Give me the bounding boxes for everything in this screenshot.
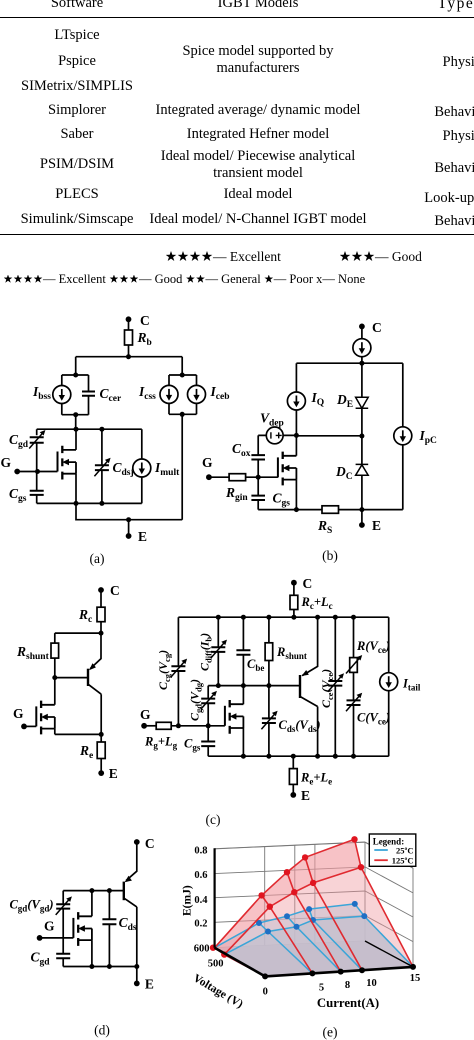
svg-text:Cce(Vce): Cce(Vce): [319, 669, 335, 708]
svg-text:G: G: [44, 919, 55, 934]
svg-text:G: G: [202, 455, 213, 470]
svg-text:Rgin: Rgin: [225, 485, 248, 503]
svg-text:Cdiff(Ib): Cdiff(Ib): [198, 633, 214, 671]
svg-text:Ibss: Ibss: [32, 384, 51, 402]
svg-text:Rc: Rc: [78, 607, 92, 625]
svg-text:Current(A): Current(A): [317, 996, 379, 1010]
svg-text:Re: Re: [79, 743, 93, 761]
svg-text:C: C: [303, 576, 313, 591]
svg-text:8: 8: [345, 980, 350, 991]
svg-text:Voltage (V): Voltage (V): [191, 972, 245, 1011]
svg-text:Cgd(Vgd): Cgd(Vgd): [9, 898, 53, 914]
svg-text:Re+Le: Re+Le: [300, 771, 332, 787]
svg-text:Cbe: Cbe: [247, 657, 264, 673]
svg-text:C(Vce): C(Vce): [357, 711, 390, 727]
svg-text:G: G: [13, 706, 24, 721]
svg-text:Cgs: Cgs: [273, 491, 291, 509]
svg-text:5: 5: [319, 983, 324, 994]
svg-text:(b): (b): [322, 548, 338, 563]
svg-text:(a): (a): [90, 551, 105, 566]
svg-text:E: E: [372, 518, 381, 533]
svg-text:0: 0: [263, 987, 268, 998]
svg-text:600: 600: [194, 944, 210, 955]
svg-text:C: C: [140, 313, 150, 328]
svg-text:25ºC: 25ºC: [396, 846, 413, 856]
svg-text:IQ: IQ: [311, 390, 325, 408]
svg-text:Rg+Lg: Rg+Lg: [144, 735, 178, 751]
svg-text:Cdsj: Cdsj: [113, 460, 134, 478]
svg-text:(d): (d): [94, 1023, 110, 1038]
svg-text:0.4: 0.4: [194, 895, 208, 906]
svg-text:Ccer: Ccer: [100, 386, 122, 404]
svg-text:Cgd: Cgd: [9, 432, 29, 450]
svg-text:0.6: 0.6: [194, 870, 207, 881]
svg-text:IpC: IpC: [419, 428, 438, 446]
svg-text:0.2: 0.2: [194, 919, 207, 930]
svg-text:Imult: Imult: [154, 460, 180, 478]
svg-text:E: E: [145, 977, 154, 992]
svg-text:C: C: [145, 836, 155, 851]
svg-text:Cgs: Cgs: [184, 737, 201, 753]
svg-text:Rb: Rb: [137, 330, 152, 348]
svg-text:DC: DC: [335, 464, 353, 482]
svg-text:15: 15: [410, 973, 421, 984]
svg-text:C: C: [110, 583, 120, 598]
svg-text:Vdep: Vdep: [260, 411, 284, 429]
svg-text:Cds: Cds: [119, 915, 137, 933]
svg-text:E(mJ): E(mJ): [182, 885, 194, 916]
svg-text:C: C: [372, 320, 382, 335]
svg-text:Icss: Icss: [138, 384, 156, 402]
svg-text:G: G: [1, 455, 12, 470]
svg-text:Cgd(Vdg): Cgd(Vdg): [188, 679, 204, 721]
svg-text:DE: DE: [336, 392, 353, 410]
svg-text:Cox: Cox: [232, 441, 251, 459]
svg-text:500: 500: [208, 958, 224, 969]
svg-text:E: E: [109, 766, 118, 781]
svg-text:125ºC: 125ºC: [392, 855, 414, 865]
svg-text:Cgd: Cgd: [31, 950, 51, 968]
svg-text:Rc+Lc: Rc+Lc: [301, 595, 333, 611]
svg-text:Itail: Itail: [402, 677, 421, 693]
svg-text:Rshunt: Rshunt: [16, 644, 50, 662]
svg-text:(e): (e): [323, 1025, 338, 1040]
svg-text:R(Vce): R(Vce): [356, 639, 390, 655]
svg-text:E: E: [301, 788, 310, 803]
svg-text:G: G: [140, 707, 151, 722]
svg-text:RS: RS: [317, 518, 332, 536]
svg-text:(c): (c): [206, 812, 221, 827]
svg-text:0.8: 0.8: [194, 845, 207, 856]
svg-text:Ccg(Vcg): Ccg(Vcg): [156, 650, 172, 690]
svg-text:Iceb: Iceb: [210, 384, 230, 402]
svg-text:E: E: [138, 529, 147, 544]
svg-text:Cgs: Cgs: [9, 486, 27, 504]
svg-text:Rshunt: Rshunt: [276, 645, 307, 661]
svg-text:Cds(Vds): Cds(Vds): [279, 718, 321, 734]
svg-text:10: 10: [366, 978, 377, 989]
